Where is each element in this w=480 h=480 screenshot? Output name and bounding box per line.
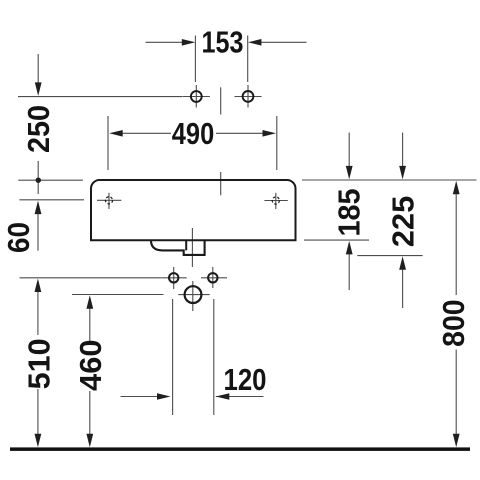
svg-text:185: 185 xyxy=(332,189,367,237)
svg-text:800: 800 xyxy=(436,299,471,347)
svg-text:250: 250 xyxy=(21,105,56,153)
svg-text:120: 120 xyxy=(224,362,267,397)
svg-text:153: 153 xyxy=(202,24,244,59)
svg-text:510: 510 xyxy=(22,338,57,389)
svg-text:225: 225 xyxy=(386,196,421,248)
svg-text:60: 60 xyxy=(1,222,36,253)
svg-text:460: 460 xyxy=(73,339,108,391)
svg-text:490: 490 xyxy=(172,116,215,151)
